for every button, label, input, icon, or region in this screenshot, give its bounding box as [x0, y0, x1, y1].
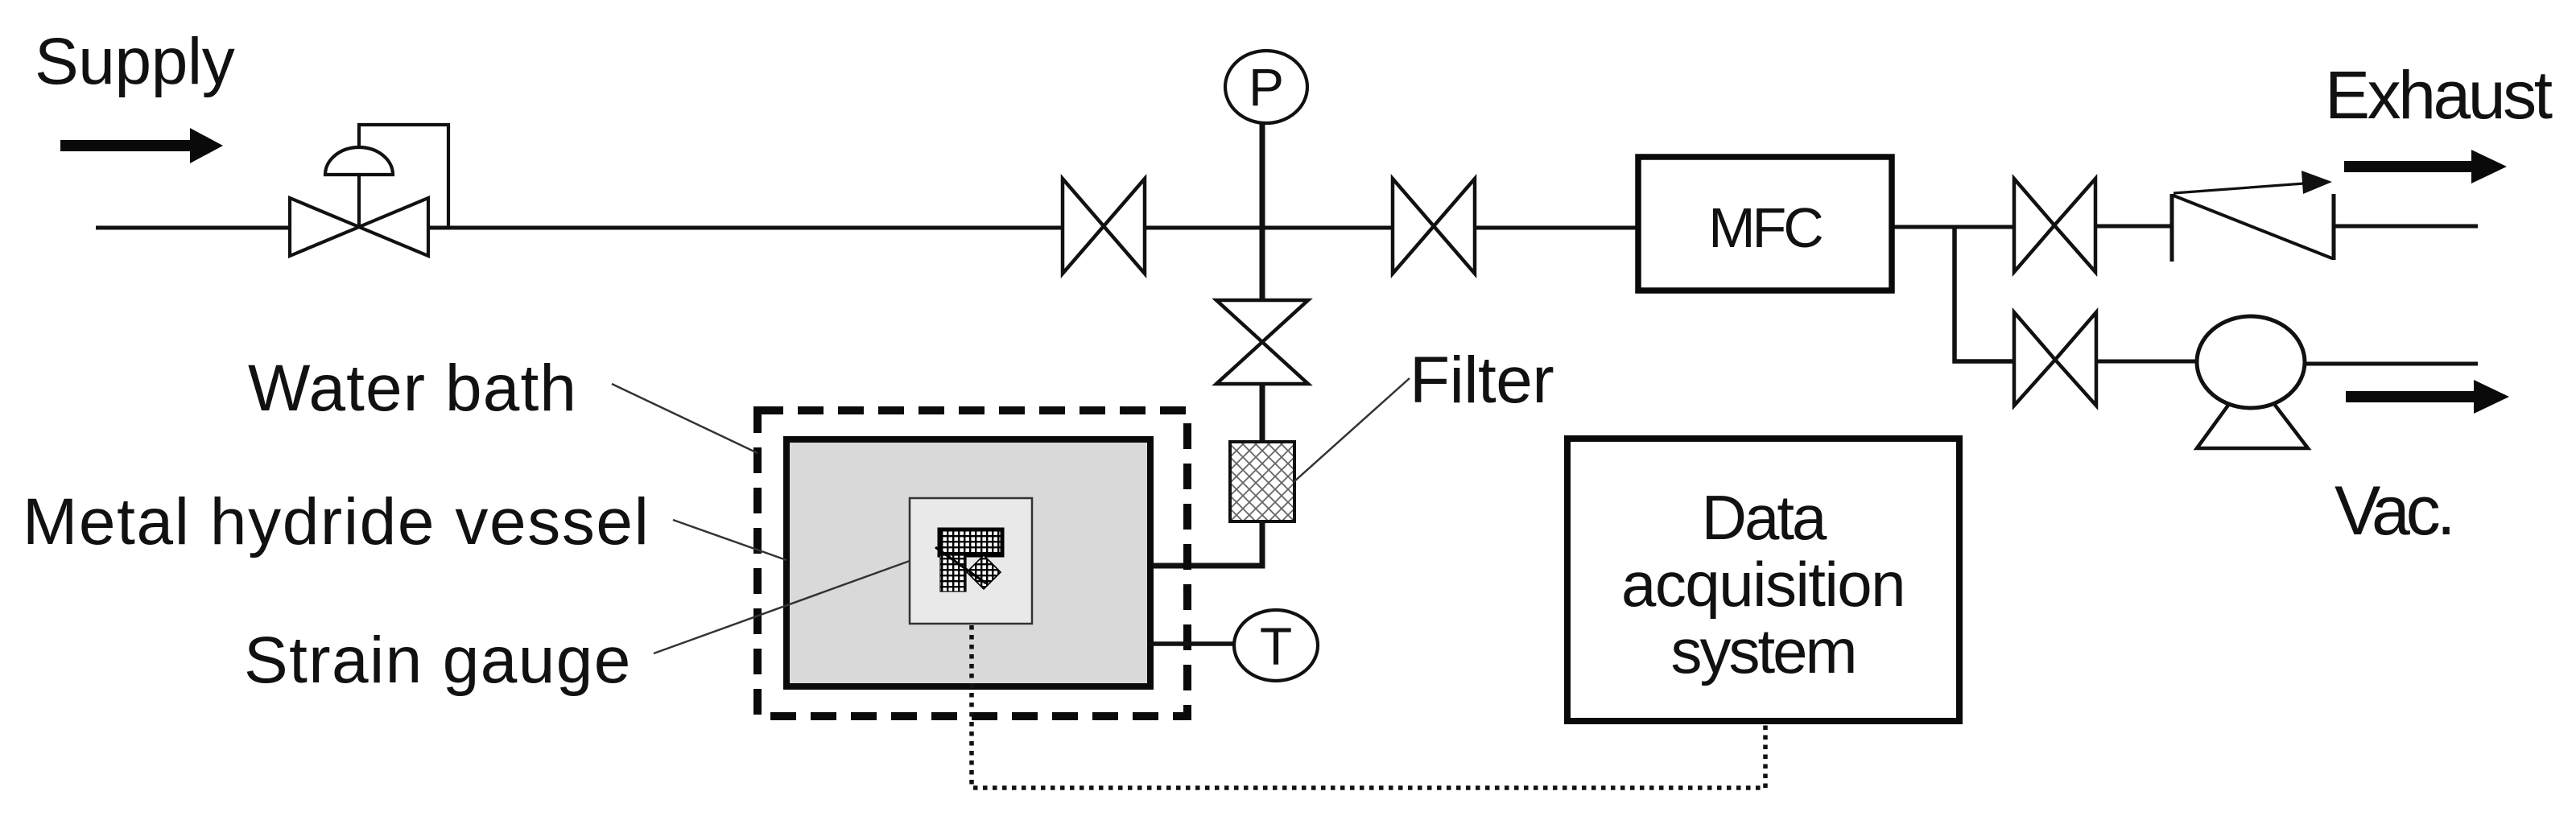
pointer water bath — [612, 384, 758, 453]
wire dotted signal line strain gauge to DAQ — [972, 625, 1765, 788]
regulator feedback loop — [359, 125, 448, 226]
wire valve to filter — [1260, 384, 1265, 443]
wire filter to vessel elbow — [1150, 521, 1262, 566]
svg-text:Metal hydride vessel: Metal hydride vessel — [23, 485, 650, 558]
pump body — [2197, 316, 2305, 408]
arrow supply flow — [60, 128, 223, 163]
wire gauge stem — [1260, 121, 1265, 228]
wire main line segment 5 — [1891, 225, 2016, 229]
wire main line segment 6 — [2095, 225, 2173, 229]
wire branch down from main line — [1260, 228, 1265, 301]
wire main line segment 4 — [1473, 226, 1638, 230]
filter F1 — [1230, 442, 1294, 521]
svg-text:Filter: Filter — [1410, 344, 1554, 417]
svg-text:Strain gauge: Strain gauge — [244, 624, 632, 697]
back pressure setting arrow — [2173, 183, 2304, 193]
wire main line segment 2 — [430, 226, 1064, 230]
wire vacuum leg segment to pump — [2094, 360, 2198, 364]
wire branch drop to vacuum leg — [1955, 227, 2016, 361]
gauge P circle — [1225, 51, 1307, 123]
arrow exhaust flow — [2344, 150, 2507, 183]
gauge T circle — [1234, 610, 1318, 681]
svg-text:Vac.: Vac. — [2334, 472, 2452, 550]
wire vessel to T — [1150, 641, 1236, 646]
wire pump outlet line — [2303, 362, 2478, 366]
svg-text:Data: Data — [1702, 482, 1827, 553]
pump base — [2197, 401, 2308, 448]
wire main line segment 3 — [1143, 226, 1394, 230]
valve V5 vertical — [1216, 300, 1308, 384]
svg-text:MFC: MFC — [1708, 196, 1822, 259]
svg-text:P: P — [1249, 57, 1284, 117]
pointer strain gauge — [654, 561, 910, 653]
regulator diaphragm dome — [325, 147, 393, 175]
wire exhaust line segment — [2333, 225, 2478, 229]
arrow vac flow — [2346, 380, 2509, 414]
pointer metal hydride vessel — [673, 520, 786, 560]
valve regulator body — [290, 198, 428, 256]
svg-text:Exhaust: Exhaust — [2325, 57, 2553, 133]
svg-text:acquisition: acquisition — [1621, 549, 1905, 620]
strain gauge element — [935, 530, 1002, 591]
svg-text:Water bath: Water bath — [248, 352, 577, 425]
pointer filter — [1294, 378, 1410, 482]
svg-text:Supply: Supply — [35, 25, 235, 98]
svg-text:system: system — [1670, 616, 1855, 686]
wire main line segment 1 — [96, 226, 291, 230]
regulator stem — [357, 176, 361, 227]
svg-text:T: T — [1260, 616, 1292, 676]
